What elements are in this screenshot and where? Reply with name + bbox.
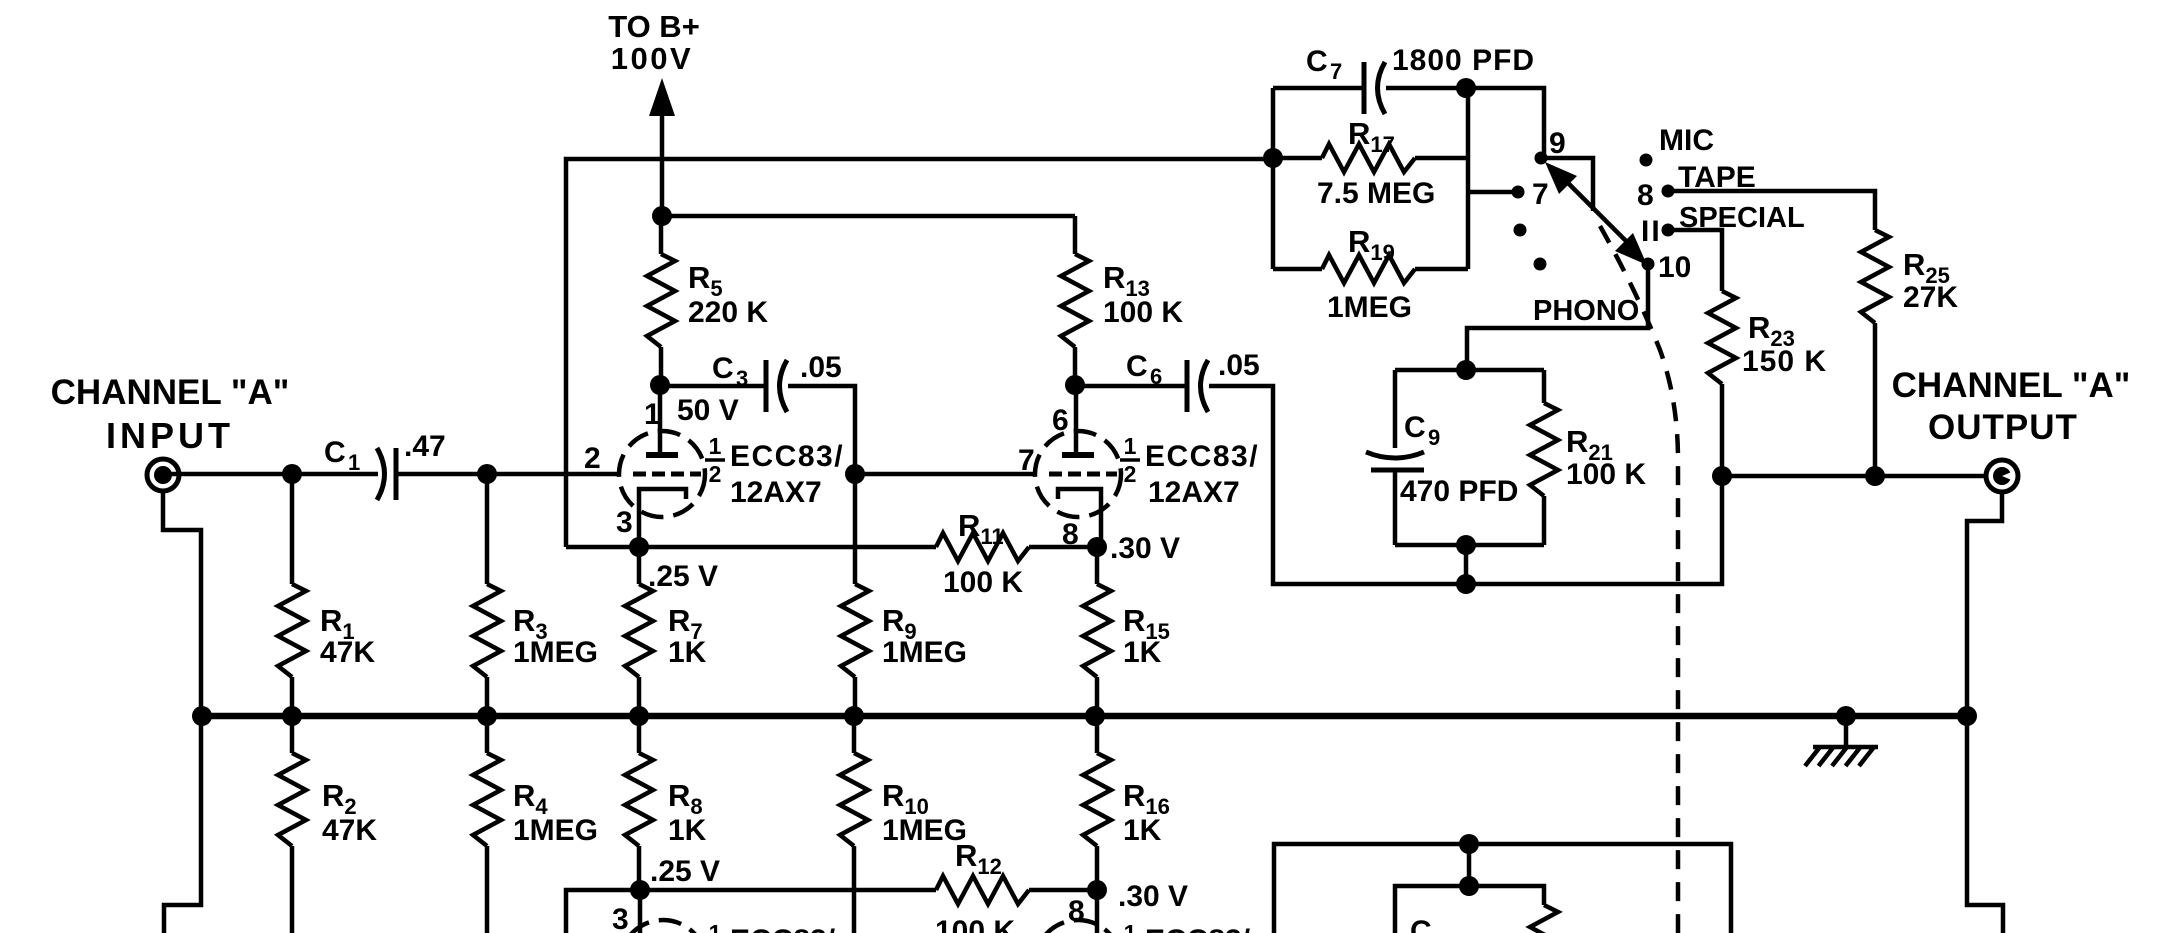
node: pin8/R15	[1087, 537, 1107, 557]
svg-text:100 K: 100 K	[935, 915, 1015, 933]
svg-text:.47: .47	[404, 430, 446, 463]
resistor R5 220K	[659, 216, 664, 254]
wire: pin8 lead channel B	[1095, 890, 1100, 933]
svg-text:ECC83/: ECC83/	[1145, 924, 1251, 933]
svg-text:ECC83/: ECC83/	[730, 924, 836, 933]
svg-text:1: 1	[709, 433, 722, 459]
svg-text:.25 V: .25 V	[650, 855, 720, 888]
wire: plate lead into tube	[658, 385, 663, 452]
node: pin3/R7	[629, 537, 649, 557]
wire: output ground return	[1967, 493, 2003, 933]
node: channel B box top	[1459, 876, 1479, 896]
wire: wiper tap from contact 9	[1541, 158, 1593, 211]
svg-text:ECC83/: ECC83/	[1145, 440, 1259, 473]
svg-text:100 K: 100 K	[943, 566, 1023, 599]
connector J1 CHANNEL A INPUT	[147, 459, 179, 491]
svg-text:2: 2	[1124, 461, 1137, 487]
switch contact 9	[1535, 152, 1548, 165]
svg-text:1K: 1K	[1123, 814, 1162, 847]
svg-text:CHANNEL "A": CHANNEL "A"	[1892, 366, 2131, 405]
node: output junction R25	[1865, 466, 1885, 486]
svg-text:.30 V: .30 V	[1118, 880, 1188, 913]
svg-text:1: 1	[709, 920, 722, 933]
svg-text:8: 8	[1068, 895, 1085, 928]
svg-text:PHONO: PHONO	[1533, 295, 1639, 327]
wire: phono network box top	[1395, 368, 1544, 373]
switch spare contacts	[1514, 224, 1527, 237]
resistor R9 1MEG	[841, 584, 869, 677]
node: feed line / rail	[1263, 148, 1283, 168]
resistor R12 100K	[936, 876, 1029, 904]
svg-text:47K: 47K	[320, 636, 375, 669]
switch wiper arrow	[1560, 175, 1640, 255]
svg-text:2: 2	[584, 442, 601, 475]
wire: node to contact 9	[1466, 88, 1544, 155]
capacitor C7 1800 PFD	[1273, 86, 1364, 91]
wire: pin3 lead channel B	[638, 890, 643, 933]
svg-text:ECC83/: ECC83/	[730, 440, 844, 473]
resistor R13 100K	[1073, 216, 1078, 254]
svg-text:12AX7: 12AX7	[1148, 476, 1240, 509]
wire: input to C1	[166, 472, 378, 477]
switch gang dashed link	[1600, 226, 1678, 933]
svg-text:47K: 47K	[322, 814, 377, 847]
resistor R15 1K	[1095, 547, 1100, 584]
resistor R19 1MEG	[1273, 267, 1322, 272]
resistor R3 1MEG	[485, 474, 490, 584]
capacitor C3 .05	[660, 384, 766, 389]
resistor R17 7.5MEG	[1273, 156, 1322, 161]
svg-text:INPUT: INPUT	[106, 415, 234, 456]
resistor R1 47K	[290, 474, 295, 584]
wire: C6 output to selector bottom rail	[1209, 386, 1722, 584]
wire: coupling node to grid of V1b	[855, 472, 1035, 477]
node: C7/R17 right	[1456, 78, 1476, 98]
svg-text:10: 10	[1658, 251, 1691, 284]
wire: output line	[1722, 474, 1985, 479]
node: C3/R9/grid V1b	[845, 464, 865, 484]
svg-text:1MEG: 1MEG	[513, 814, 598, 847]
wire: channel B network top line	[1274, 844, 1731, 933]
wire: C7 to node	[1386, 86, 1466, 91]
node: R5/C3/plate V1a	[650, 375, 670, 395]
svg-text:TO B+: TO B+	[608, 9, 700, 44]
node: B+ / R5 / plate supply junction	[652, 206, 672, 226]
svg-text:50 V: 50 V	[677, 394, 739, 427]
connector J2 CHANNEL A OUTPUT	[1986, 460, 2018, 492]
tube envelope (dashed circle)	[1035, 431, 1121, 517]
svg-text:1MEG: 1MEG	[882, 636, 967, 669]
switch contact 7	[1512, 186, 1525, 199]
resistor R10 1MEG	[852, 716, 857, 753]
wire: ground bus	[202, 713, 1967, 720]
node: C1/R3 junction	[477, 464, 497, 484]
svg-text:1: 1	[1124, 920, 1137, 933]
tube envelope (dashed circle)	[619, 431, 705, 517]
svg-text:100 K: 100 K	[1103, 296, 1183, 329]
wire: TAPE contact to R25	[1668, 191, 1875, 230]
tube grid (dashed)	[633, 472, 701, 477]
wire: plate lead into tube	[1074, 385, 1079, 452]
svg-text:100V: 100V	[611, 41, 693, 76]
svg-text:2: 2	[709, 461, 722, 487]
wire: phono network box bottom	[1395, 543, 1544, 548]
svg-text:3: 3	[736, 366, 748, 391]
svg-text:3: 3	[612, 903, 629, 933]
svg-text:6: 6	[1052, 404, 1069, 437]
svg-text:.05: .05	[800, 351, 842, 384]
svg-text:7: 7	[1532, 178, 1549, 211]
svg-text:7: 7	[1018, 444, 1035, 477]
wire: SPECIAL contact to R23	[1668, 230, 1722, 291]
node: bottom rail junction	[1456, 574, 1476, 594]
svg-text:100 K: 100 K	[1566, 458, 1646, 491]
wire: input ground return (down-left jog)	[163, 492, 201, 933]
svg-text:.30 V: .30 V	[1110, 532, 1180, 565]
wire: contact 10 to phono network	[1467, 264, 1648, 370]
svg-text:CHANNEL "A": CHANNEL "A"	[51, 373, 290, 412]
tube plate bar	[1062, 452, 1094, 458]
svg-text:1MEG: 1MEG	[1327, 291, 1412, 324]
svg-text:8: 8	[1637, 179, 1654, 212]
svg-text:1: 1	[644, 398, 661, 431]
node: box top	[1456, 360, 1476, 380]
svg-text:II: II	[1641, 215, 1662, 248]
wire: channel B cathode line	[566, 890, 936, 933]
svg-text:1: 1	[1124, 433, 1137, 459]
tube cathode	[639, 489, 686, 547]
node: R13/C6/plate V1b	[1065, 375, 1085, 395]
svg-text:1K: 1K	[1123, 636, 1162, 669]
switch contact MIC	[1640, 154, 1653, 167]
svg-text:OUTPUT: OUTPUT	[1928, 408, 2078, 447]
tube V2a envelope (partial)	[620, 920, 706, 933]
svg-text:6: 6	[1150, 364, 1162, 389]
node: channel B net top	[1459, 834, 1479, 854]
svg-text:9: 9	[1428, 425, 1440, 450]
svg-text:9: 9	[1549, 127, 1566, 160]
node ground bus junctions	[192, 706, 212, 726]
svg-text:3: 3	[616, 506, 633, 539]
svg-text:1800 PFD: 1800 PFD	[1392, 44, 1535, 77]
resistor R25 27K	[1861, 230, 1889, 323]
switch contact 11 SPECIAL	[1662, 224, 1675, 237]
svg-text:C: C	[1126, 350, 1148, 383]
svg-text:27K: 27K	[1903, 281, 1958, 314]
resistor R7 1K	[637, 547, 642, 584]
wire: C1 to grid of V1a	[398, 472, 620, 477]
switch contact 10	[1642, 258, 1655, 271]
resistor R21 100K	[1542, 370, 1547, 403]
resistor R2 47K	[290, 716, 295, 753]
svg-text:C: C	[1404, 411, 1426, 444]
node: box bottom	[1456, 535, 1476, 555]
capacitor C1	[377, 448, 385, 500]
svg-text:7: 7	[1330, 59, 1342, 84]
resistor R22 (partial)	[1530, 905, 1558, 933]
capacitor C6 .05	[1075, 384, 1187, 389]
tube V2b envelope (partial)	[1035, 920, 1121, 933]
wire: feedback line from switch network to cathode line	[566, 159, 1273, 547]
tube plate bar	[646, 452, 678, 458]
svg-text:470 PFD: 470 PFD	[1400, 475, 1518, 508]
node: pin3 (V2a)/R8	[630, 880, 650, 900]
wire: plate supply to R13	[662, 214, 1075, 219]
svg-text:1MEG: 1MEG	[513, 636, 598, 669]
resistor R8 1K	[637, 716, 642, 753]
resistor R4 1MEG	[485, 716, 490, 753]
svg-text:220 K: 220 K	[688, 296, 768, 329]
resistor R11 100K	[936, 533, 1029, 561]
svg-text:C: C	[712, 352, 734, 385]
svg-text:C: C	[1306, 45, 1328, 78]
svg-text:.25 V: .25 V	[648, 560, 718, 593]
switch contact 8 TAPE	[1662, 185, 1675, 198]
svg-text:12AX7: 12AX7	[730, 476, 822, 509]
node: output junction R23	[1712, 466, 1732, 486]
wire: left rail of feedback network	[1271, 88, 1276, 269]
wire: channel B phono box (partial)	[1395, 886, 1544, 933]
svg-text:.05: .05	[1218, 349, 1260, 382]
svg-text:C: C	[1410, 915, 1432, 933]
svg-text:MIC: MIC	[1659, 124, 1714, 157]
svg-text:150 K: 150 K	[1742, 345, 1827, 378]
resistor R16 1K	[1095, 716, 1100, 753]
wire: to channel B phono box	[1467, 844, 1472, 886]
node: input/R1 junction	[282, 464, 302, 484]
wire: cathode line V1a-V1b	[566, 545, 936, 550]
svg-text:7.5 MEG: 7.5 MEG	[1317, 177, 1435, 210]
tube grid (dashed)	[1049, 472, 1117, 477]
wire: right tie bar of network	[1466, 88, 1471, 269]
svg-text:1K: 1K	[668, 814, 707, 847]
ground chassis symbol	[1844, 716, 1849, 747]
node: pin8 (V2b)/R16	[1087, 880, 1107, 900]
svg-text:1K: 1K	[668, 636, 707, 669]
wire: box bottom to output rail	[1464, 545, 1469, 584]
tube cathode	[1058, 489, 1101, 547]
wire: C3 to coupling node	[788, 386, 855, 584]
svg-text:1: 1	[348, 450, 360, 475]
resistor R23 150K	[1708, 291, 1736, 384]
wire: to contact 7	[1468, 190, 1512, 195]
svg-text:C: C	[324, 436, 346, 469]
capacitor C9 470PFD	[1393, 370, 1398, 448]
